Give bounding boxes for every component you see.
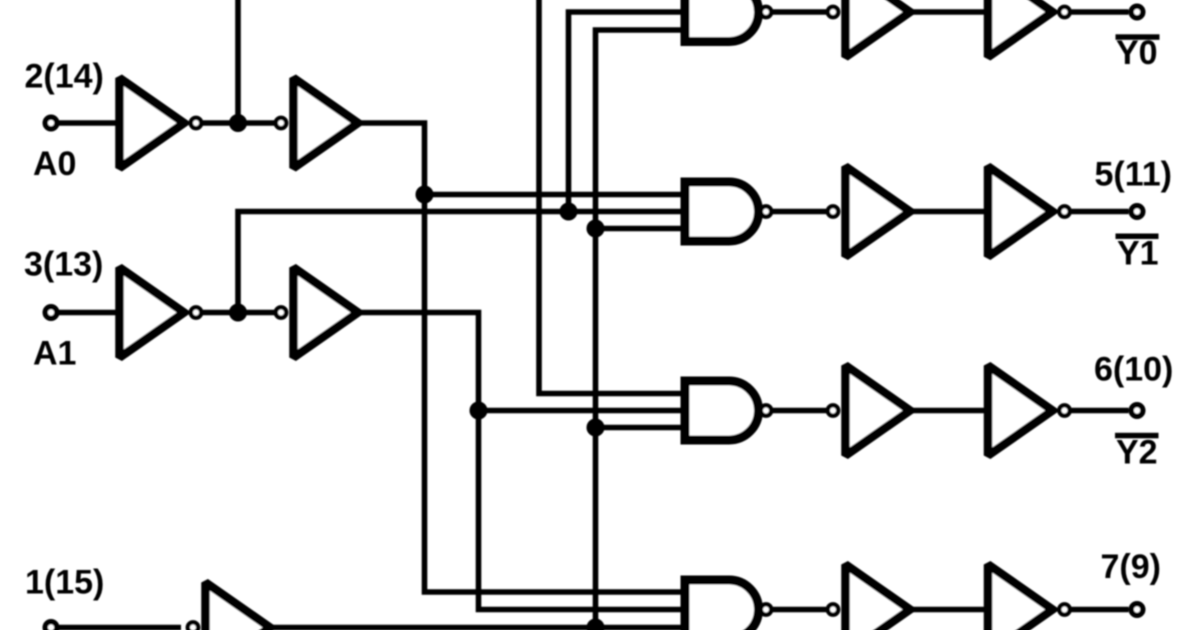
NAND gate G4 Y3 output bubble xyxy=(761,604,771,614)
wire net EN branch to NAND3 bottom input xyxy=(596,425,686,431)
overline for Y2 xyxy=(1115,433,1159,439)
inverter U1B (A1) xyxy=(120,268,185,358)
buffer stage1 Y1 input bubble xyxy=(828,206,838,216)
output terminal Y3 xyxy=(1131,604,1143,616)
NAND gate G3 Y2 xyxy=(685,381,759,440)
wire buffer stage1 to stage2 row Y0 xyxy=(910,9,988,15)
wire buffer stage1 to stage2 row Y1 xyxy=(910,209,988,215)
wire net A1N branch up to NAND1 middle input xyxy=(569,12,686,212)
buffer stage2 Y1 xyxy=(988,167,1053,257)
wire buffer Y3 to output terminal xyxy=(1072,607,1129,613)
buffer stage2 Y1 output bubble xyxy=(1059,206,1069,216)
inverter U2B (A1) xyxy=(294,268,359,358)
wire net EN vertical bus up to NAND1 bottom input xyxy=(596,30,686,628)
wire net EN branch to NAND2 bottom input xyxy=(596,226,686,232)
wire net A0N vertical to top edge xyxy=(235,0,241,123)
NAND gate G1 Y0 xyxy=(685,0,759,42)
wire NAND Y1 output to buffer xyxy=(773,209,826,215)
buffer stage2 Y0 output bubble xyxy=(1059,7,1069,17)
NAND gate G2 Y1 xyxy=(685,182,759,241)
inverter U3 input bubble xyxy=(188,622,198,630)
NAND gate G1 Y0 output bubble xyxy=(761,7,771,17)
overline for Y1 xyxy=(1116,234,1159,240)
buffer stage2 Y3 output bubble xyxy=(1059,604,1069,614)
buffer stage1 Y2 xyxy=(846,366,911,456)
wire NAND Y0 output to buffer xyxy=(773,9,826,15)
NAND gate G4 Y3 xyxy=(685,580,759,630)
node A0N junction xyxy=(229,114,247,132)
inverter U2B input bubble xyxy=(276,307,286,317)
NAND gate G3 Y2 output bubble xyxy=(761,405,771,415)
buffer stage1 Y0 xyxy=(846,0,911,57)
overline for Y0 xyxy=(1116,34,1160,40)
wire NAND Y2 output to buffer xyxy=(773,408,826,414)
svg-text:1(15): 1(15) xyxy=(25,564,104,602)
inverter U2A input bubble xyxy=(276,118,286,128)
output terminal Y0 xyxy=(1131,6,1143,18)
wire input E terminal to inverter U3 xyxy=(51,625,181,630)
wire net A1N up and right to NAND2 middle input xyxy=(238,212,685,313)
wire buffer Y0 to output terminal xyxy=(1072,9,1129,15)
node EN junction row Y2 xyxy=(587,419,605,437)
svg-text:6(10): 6(10) xyxy=(1094,351,1173,389)
svg-text:A1: A1 xyxy=(33,334,76,372)
buffer stage1 Y2 input bubble xyxy=(828,405,838,415)
output terminal Y2 xyxy=(1131,405,1143,417)
input terminal A1 xyxy=(45,307,57,319)
buffer stage1 Y0 input bubble xyxy=(828,7,838,17)
wire net A1T branch to NAND3 middle input xyxy=(479,408,686,414)
wire buffer Y1 to output terminal xyxy=(1072,209,1129,215)
inverter U3 (enable E) xyxy=(206,583,271,630)
input terminal A0 xyxy=(45,117,57,129)
node A1T junction xyxy=(470,402,488,420)
svg-text:2(14): 2(14) xyxy=(25,58,104,96)
wire node A0N inverter U1A output to U2A input xyxy=(203,120,276,126)
svg-text:Y1: Y1 xyxy=(1117,235,1159,273)
output terminal Y1 xyxy=(1131,206,1143,218)
buffer stage1 Y3 input bubble xyxy=(828,604,838,614)
svg-text:Y0: Y0 xyxy=(1116,34,1158,72)
wire buffer Y2 to output terminal xyxy=(1072,408,1129,414)
inverter U1A (A0) xyxy=(120,78,185,168)
buffer stage2 Y3 xyxy=(988,565,1053,630)
wire buffer stage1 to stage2 row Y2 xyxy=(910,408,988,414)
inverter U1B output bubble xyxy=(191,307,201,317)
buffer stage1 Y3 xyxy=(846,565,911,630)
wire input A0 terminal to inverter U1A xyxy=(51,120,116,126)
buffer stage2 Y2 output bubble xyxy=(1059,405,1069,415)
wire NAND Y3 output to buffer xyxy=(773,607,826,613)
wire net A0T branch to NAND2 top input xyxy=(425,192,686,198)
buffer stage2 Y2 xyxy=(988,366,1053,456)
NAND gate G2 Y1 output bubble xyxy=(761,206,771,216)
wire net A1T from U2B output right and down to NAND4 middle input xyxy=(358,313,685,610)
node A0T junction xyxy=(416,186,434,204)
buffer stage1 Y1 xyxy=(846,167,911,257)
wire net A0T from U2A output right and down to NAND4 top input xyxy=(358,123,685,592)
node EN junction row Y3 xyxy=(587,619,605,630)
node EN junction row Y1 xyxy=(587,220,605,238)
svg-text:7(9): 7(9) xyxy=(1101,548,1161,586)
wire buffer stage1 to stage2 row Y3 xyxy=(910,607,988,613)
svg-text:5(11): 5(11) xyxy=(1095,156,1173,194)
wire net A0N bus from top edge down to NAND3 top input xyxy=(539,0,685,394)
inverter U2A (A0) xyxy=(294,78,359,168)
wire input A1 terminal to inverter U1B xyxy=(51,310,116,316)
node A1N bus junction xyxy=(560,203,578,221)
buffer stage2 Y0 xyxy=(988,0,1053,57)
node A1N junction xyxy=(229,304,247,322)
wire node A1N inverter U1B output to U2B input xyxy=(203,310,276,316)
input terminal E xyxy=(45,622,57,630)
inverter U1A output bubble xyxy=(191,118,201,128)
svg-text:A0: A0 xyxy=(33,145,76,183)
svg-text:3(13): 3(13) xyxy=(24,246,103,284)
wire net EN from inverter U3 output to NAND4 bottom input xyxy=(270,625,685,630)
svg-text:Y2: Y2 xyxy=(1116,434,1158,472)
